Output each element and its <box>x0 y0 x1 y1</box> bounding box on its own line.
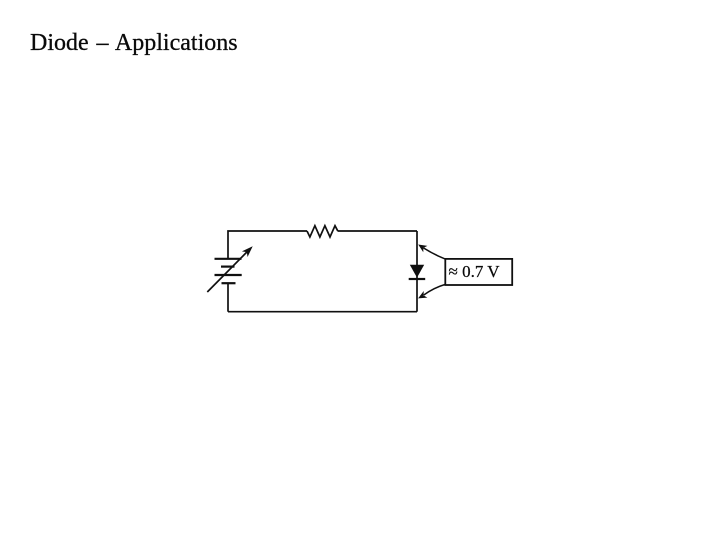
wire: top-left segment (battery to resistor) <box>228 231 307 259</box>
label box ≈ 0.7 V <box>445 259 512 285</box>
svg-text:≈ 0.7 V: ≈ 0.7 V <box>449 262 501 281</box>
diode D1 <box>409 265 426 280</box>
battery V1 (variable source) plates <box>215 259 242 283</box>
wire: top-right segment (resistor to right corner) <box>338 230 417 232</box>
wire: left side lower (battery to bottom corner) <box>227 283 229 312</box>
wire: right side (through diode) <box>416 231 418 312</box>
title: Diode – Applications <box>30 31 238 55</box>
variability arrow across battery <box>207 246 252 292</box>
wire: bottom side <box>228 311 417 313</box>
annotation arrow to diode anode (top) <box>418 245 445 260</box>
annotation arrow to diode cathode (bottom) <box>418 284 445 298</box>
resistor R1 <box>307 226 338 237</box>
